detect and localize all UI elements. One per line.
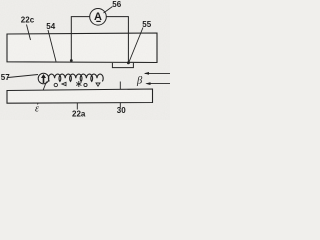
plate 22c (top electrode) [7, 33, 157, 63]
background paper [0, 0, 170, 120]
leader 54 [48, 30, 56, 62]
toner particle row [48, 74, 103, 81]
junction dot right [127, 61, 130, 64]
ammeter underline [96, 21, 100, 22]
leader epsilon [38, 82, 47, 105]
leader 22c [27, 25, 31, 41]
small circle symbol 2 [84, 83, 87, 86]
small triangle-left symbol [62, 82, 66, 85]
beta arrow 2 [147, 83, 171, 85]
small circle symbol [54, 83, 57, 86]
leader 30 [119, 82, 121, 108]
leader 55 [129, 28, 143, 63]
leader 56 [104, 7, 113, 14]
leader 22a [76, 97, 78, 110]
small triangle-down symbol [96, 83, 100, 86]
junction dot left [70, 59, 73, 62]
plate 22a (bottom electrode) [7, 89, 153, 103]
arrow inside particle 57 [41, 74, 46, 83]
asterisk symbol [76, 81, 81, 87]
wire [71, 17, 128, 63]
leader 57 [8, 75, 38, 78]
beta arrow 1 [145, 72, 170, 74]
probe box 55 [112, 63, 133, 68]
op-amp U1 [90, 8, 107, 25]
particle 57 circle [38, 73, 49, 84]
